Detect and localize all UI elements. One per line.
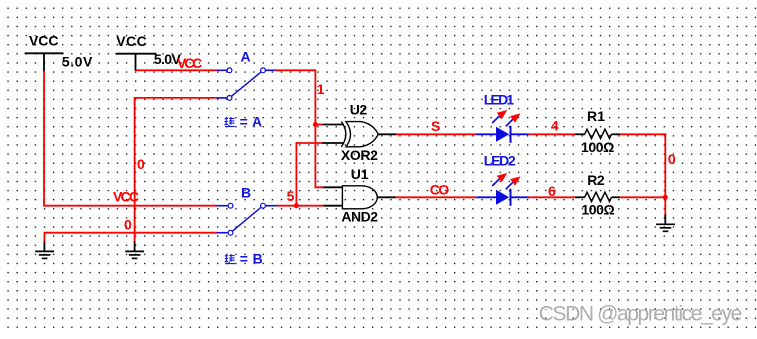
svg-text:CO: CO [430,182,450,198]
svg-text:VCC: VCC [116,33,147,49]
svg-text:5.0V: 5.0V [62,53,93,69]
svg-text:LED1: LED1 [484,92,515,108]
svg-text:U2: U2 [350,102,368,118]
svg-text:R2: R2 [587,172,605,188]
svg-text:R1: R1 [587,108,605,124]
svg-text:0: 0 [668,151,676,167]
svg-text:VCC: VCC [29,32,59,48]
svg-text:1: 1 [317,81,325,97]
svg-text:AND2: AND2 [341,209,378,225]
svg-text:XOR2: XOR2 [341,147,378,163]
svg-text:LED2: LED2 [484,153,516,169]
svg-text:A: A [241,48,251,64]
svg-text:S: S [431,118,440,134]
svg-text:B: B [241,184,251,200]
svg-text:0: 0 [124,217,132,233]
svg-text:= B: = B [240,250,263,266]
svg-text:= A: = A [240,113,263,129]
svg-text:4: 4 [551,118,559,134]
svg-text:5: 5 [287,188,295,204]
svg-text:100Ω: 100Ω [581,139,614,155]
svg-text:0: 0 [137,156,145,172]
svg-text:VCC: VCC [177,55,202,71]
svg-text:100Ω: 100Ω [581,202,614,218]
svg-text:6: 6 [548,183,556,199]
svg-text:U1: U1 [351,166,369,182]
svg-text:VCC: VCC [113,188,139,204]
svg-text:CSDN @apprentice_eye: CSDN @apprentice_eye [539,302,743,325]
